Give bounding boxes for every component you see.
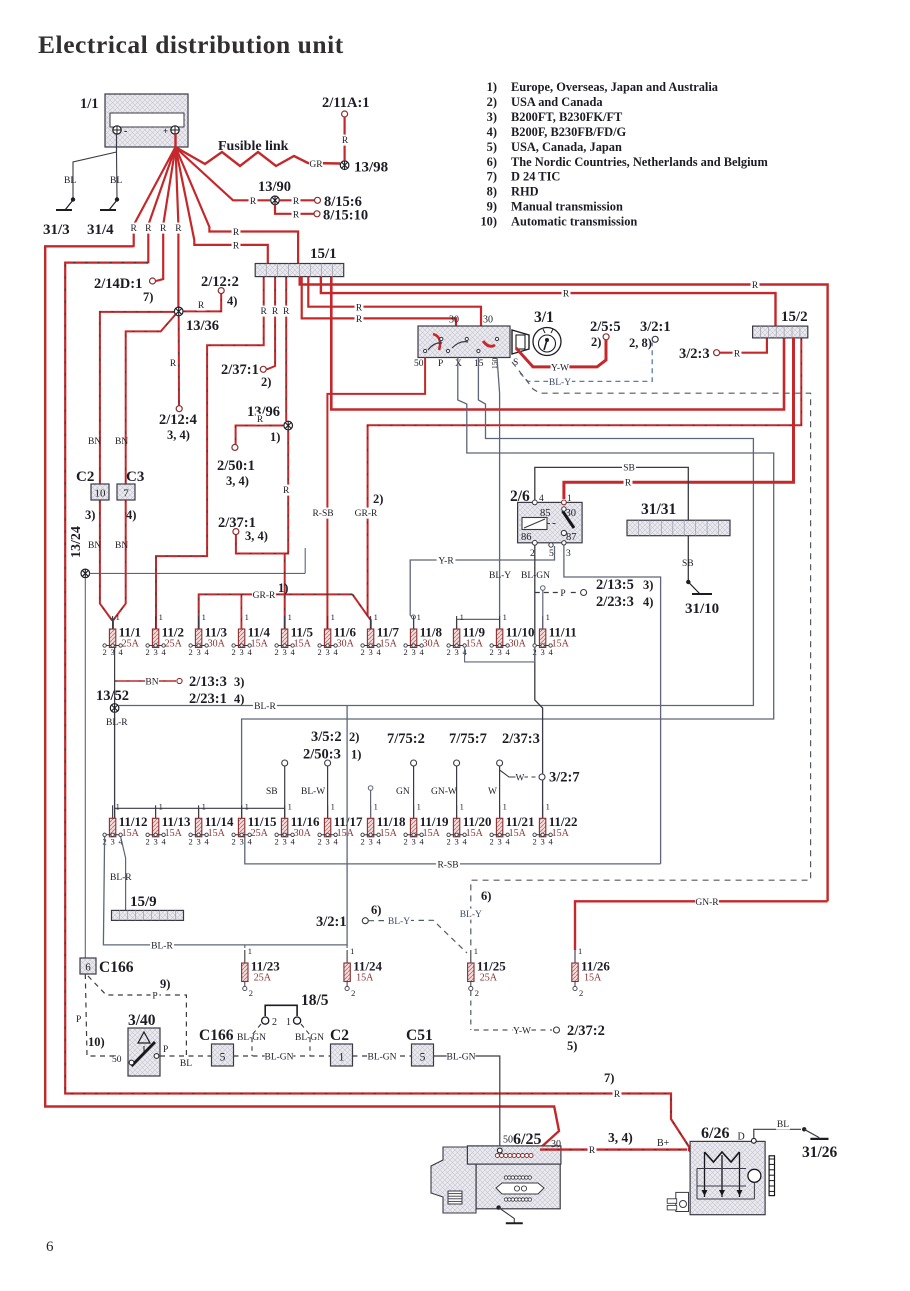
fuse 11/5 15A: [284, 616, 286, 629]
svg-text:4: 4: [505, 647, 510, 657]
svg-text:15/9: 15/9: [130, 894, 157, 910]
svg-text:11/14: 11/14: [205, 814, 234, 829]
svg-text:B200F, B230FB/FD/G: B200F, B230FB/FD/G: [511, 125, 627, 139]
svg-text:SB: SB: [623, 464, 635, 474]
wire BL-R 13/52 down to row 2 bus: [114, 712, 116, 818]
svg-text:3: 3: [368, 647, 372, 657]
svg-text:1: 1: [503, 612, 507, 622]
alternator rotor: [748, 1169, 761, 1182]
svg-text:4): 4): [643, 595, 653, 609]
svg-text:4: 4: [419, 836, 424, 846]
svg-text:2: 2: [360, 647, 364, 657]
svg-text:1: 1: [567, 494, 572, 504]
fuse 11/17 15A: [327, 805, 329, 818]
svg-text:Electrical distribution unit: Electrical distribution unit: [38, 30, 344, 59]
fuse 11/22 15A: [542, 805, 544, 818]
wire dashed fuse 11/25 to Y-W: [470, 991, 472, 1030]
wire BL-GN C166 to C2: [234, 1055, 331, 1057]
svg-text:3): 3): [643, 578, 653, 592]
svg-text:6: 6: [46, 1239, 54, 1255]
svg-text:2/13:3: 2/13:3: [189, 674, 227, 690]
svg-text:BL-R: BL-R: [151, 941, 173, 951]
svg-text:3: 3: [540, 647, 544, 657]
svg-text:9): 9): [160, 977, 170, 991]
alternator pulley: [769, 1156, 774, 1196]
svg-text:9): 9): [487, 200, 497, 214]
svg-text:D: D: [738, 1132, 745, 1143]
svg-text:86: 86: [521, 532, 532, 543]
svg-text:B+: B+: [657, 1138, 670, 1149]
svg-text:7): 7): [143, 290, 153, 304]
svg-text:3, 4): 3, 4): [167, 428, 190, 442]
svg-text:2: 2: [231, 647, 235, 657]
svg-text:11/2: 11/2: [162, 625, 184, 640]
svg-text:2/37:1: 2/37:1: [221, 362, 259, 378]
svg-text:BL-GN: BL-GN: [295, 1033, 324, 1043]
connector C166 pin 5: [212, 1044, 234, 1066]
svg-text:2/50:3: 2/50:3: [303, 747, 341, 763]
fuse 11/12 15A: [112, 805, 114, 818]
svg-text:R: R: [131, 224, 138, 234]
svg-text:R: R: [293, 197, 300, 207]
svg-text:15A: 15A: [380, 639, 398, 650]
svg-text:11/25: 11/25: [477, 959, 506, 974]
svg-text:1: 1: [374, 801, 378, 811]
svg-text:1): 1): [270, 430, 280, 444]
svg-text:R: R: [261, 307, 268, 317]
wire R 13/90 to 8/15:6: [280, 199, 315, 201]
wire BN C2 to fuse 11/1: [100, 500, 112, 621]
svg-text:C3: C3: [126, 469, 144, 485]
svg-text:25A: 25A: [122, 639, 140, 650]
fuse 11/16 30A: [284, 805, 286, 818]
svg-text:4: 4: [247, 836, 252, 846]
wire R 15/2 to relay 30: [564, 338, 794, 499]
svg-text:4: 4: [247, 647, 252, 657]
svg-text:R: R: [563, 290, 570, 300]
wire R branch to 2/37:1 variant 3 4: [236, 535, 288, 554]
svg-text:15A: 15A: [251, 639, 269, 650]
fuse 11/11 15A: [542, 616, 544, 629]
svg-text:2): 2): [373, 492, 383, 506]
svg-text:C51: C51: [406, 1027, 433, 1044]
svg-text:2): 2): [349, 730, 359, 744]
svg-text:13/24: 13/24: [69, 526, 84, 558]
svg-text:D 24 TIC: D 24 TIC: [511, 170, 560, 184]
svg-text:R: R: [257, 415, 264, 425]
fuse 11/10 30A: [499, 616, 501, 629]
wire GN-R outer loop to fuse 11/26: [575, 901, 828, 950]
fuse 11/6 30A: [327, 616, 329, 629]
splice 13/36: [174, 307, 183, 316]
svg-text:SB: SB: [266, 787, 278, 797]
svg-text:4: 4: [161, 836, 166, 846]
svg-text:87: 87: [566, 532, 577, 543]
splice 13/52: [114, 686, 116, 704]
svg-text:1: 1: [417, 801, 421, 811]
svg-text:BL-GN: BL-GN: [237, 1033, 266, 1043]
fuse 11/14 15A: [198, 805, 200, 818]
splice 13/90: [271, 196, 280, 205]
svg-text:P: P: [76, 1015, 81, 1025]
svg-text:BN: BN: [145, 678, 158, 688]
svg-text:4): 4): [126, 508, 136, 522]
svg-text:8/15:10: 8/15:10: [323, 208, 368, 224]
relay coil: [522, 518, 547, 530]
wire BL 3/40 to C166 pin 5: [160, 1055, 211, 1057]
svg-text:25A: 25A: [251, 828, 269, 839]
wire BL-GN C51 to starter 50: [434, 1056, 500, 1149]
svg-text:3: 3: [454, 836, 458, 846]
svg-text:R: R: [283, 486, 290, 496]
svg-text:2/50:1: 2/50:1: [217, 458, 255, 474]
svg-text:5): 5): [487, 140, 497, 154]
svg-text:1: 1: [331, 801, 335, 811]
svg-text:BL: BL: [110, 176, 122, 186]
fuse row 2 bus wire: [115, 807, 285, 809]
fuse 11/24 15A: [346, 945, 348, 948]
wire fuse 11/4 feed from GR-R bus: [240, 594, 242, 629]
svg-text:3/40: 3/40: [128, 1012, 156, 1029]
svg-text:Y-R: Y-R: [438, 557, 454, 567]
wire BL-Y dashed ignition to 3/2:1: [520, 343, 652, 382]
svg-text:R: R: [145, 224, 152, 234]
svg-text:4: 4: [376, 647, 381, 657]
svg-text:R: R: [589, 1146, 596, 1156]
wire R fan column 1: [134, 147, 176, 247]
svg-text:C2: C2: [76, 469, 94, 485]
terminal 2/14D:1: [150, 278, 156, 284]
svg-text:3: 3: [368, 836, 372, 846]
terminal 3/2:3: [714, 350, 720, 356]
svg-text:3/5:2: 3/5:2: [311, 729, 342, 745]
svg-text:1: 1: [116, 801, 120, 811]
svg-text:31/10: 31/10: [685, 601, 719, 617]
wire R starter 30 to alternator B+: [540, 1148, 687, 1150]
svg-text:-: -: [124, 126, 127, 137]
svg-text:W: W: [516, 774, 525, 784]
connector strip 15/2: [753, 326, 808, 338]
svg-text:11/19: 11/19: [420, 814, 449, 829]
svg-text:2: 2: [360, 836, 364, 846]
svg-text:BL: BL: [777, 1120, 789, 1130]
wire P relay to 2/13:5: [535, 592, 578, 594]
svg-text:2/13:5: 2/13:5: [596, 577, 634, 593]
svg-text:3/2:1: 3/2:1: [640, 319, 671, 335]
svg-text:R: R: [233, 228, 240, 238]
svg-text:1: 1: [159, 801, 163, 811]
starter ground wire: [496, 1205, 500, 1209]
svg-text:5): 5): [567, 1039, 577, 1053]
svg-text:1: 1: [460, 801, 464, 811]
svg-text:7): 7): [604, 1071, 614, 1085]
svg-text:3): 3): [234, 675, 244, 689]
starter terminal 50: [497, 1148, 502, 1153]
wire GR to splice 13/98: [309, 159, 323, 170]
svg-text:11/13: 11/13: [162, 814, 191, 829]
fuse 11/13 15A: [155, 805, 157, 818]
fusible link wire: [177, 148, 340, 166]
svg-text:R: R: [250, 197, 257, 207]
svg-text:15A: 15A: [466, 639, 484, 650]
svg-text:3: 3: [540, 836, 544, 846]
starter armature: [496, 1183, 544, 1194]
svg-text:1: 1: [202, 612, 206, 622]
svg-text:3: 3: [110, 836, 114, 846]
fuse 11/23 25A: [244, 945, 246, 948]
svg-text:C2: C2: [330, 1027, 349, 1044]
svg-text:Europe, Overseas, Japan and Au: Europe, Overseas, Japan and Australia: [511, 80, 718, 94]
wire relay 3 to Y-R junction and R-SB line: [564, 545, 661, 864]
svg-text:3: 3: [454, 647, 458, 657]
svg-text:4: 4: [333, 647, 338, 657]
svg-text:1: 1: [350, 946, 354, 956]
svg-text:Y-W: Y-W: [551, 364, 569, 374]
svg-text:4: 4: [290, 836, 295, 846]
wire R fan column 4 to splice 13/36: [176, 147, 179, 307]
ground 31/26: [804, 1129, 819, 1137]
svg-text:3/2:7: 3/2:7: [549, 770, 580, 786]
relay 2/6 body: [518, 502, 583, 542]
svg-text:1: 1: [546, 612, 550, 622]
svg-text:5: 5: [220, 1052, 226, 1064]
wire BL-GN 18/5 pin 1 down: [301, 1024, 310, 1056]
starter motor 6/25 gear stripes: [448, 1191, 462, 1204]
terminal 3/2:1: [652, 336, 658, 342]
svg-text:7: 7: [123, 488, 129, 500]
svg-text:USA, Canada, Japan: USA, Canada, Japan: [511, 140, 622, 154]
svg-text:R: R: [272, 307, 279, 317]
svg-text:11/7: 11/7: [377, 625, 400, 640]
svg-text:1: 1: [288, 612, 292, 622]
svg-text:BN: BN: [115, 541, 128, 551]
svg-text:3: 3: [411, 647, 415, 657]
svg-text:1: 1: [374, 612, 378, 622]
svg-text:1: 1: [159, 612, 163, 622]
svg-text:BL-Y: BL-Y: [460, 910, 482, 920]
svg-text:2/12:2: 2/12:2: [201, 274, 239, 290]
svg-text:BL-GN: BL-GN: [521, 571, 550, 581]
svg-text:15A: 15A: [423, 828, 441, 839]
alternator diodes: [702, 1190, 708, 1196]
svg-text:2: 2: [274, 836, 278, 846]
wire ignition 15 to 13/52 line: [119, 358, 753, 706]
svg-text:30: 30: [449, 315, 459, 326]
svg-text:25A: 25A: [480, 973, 498, 984]
svg-text:R: R: [160, 224, 167, 234]
svg-text:RHD: RHD: [511, 185, 539, 199]
svg-text:11/10: 11/10: [506, 625, 535, 640]
svg-text:4): 4): [487, 125, 497, 139]
svg-text:11/3: 11/3: [205, 625, 228, 640]
starter motor 6/25 drive housing: [431, 1147, 476, 1213]
svg-text:6): 6): [371, 903, 381, 917]
svg-text:BL-W: BL-W: [301, 787, 325, 797]
svg-text:BN: BN: [88, 541, 101, 551]
svg-text:2: 2: [489, 836, 493, 846]
wire R-SB line to fuse 11/15: [245, 837, 661, 864]
svg-text:30A: 30A: [208, 639, 226, 650]
svg-text:2: 2: [403, 647, 407, 657]
svg-text:31/26: 31/26: [802, 1144, 838, 1161]
svg-text:1/1: 1/1: [80, 96, 99, 112]
svg-text:2): 2): [487, 95, 497, 109]
svg-text:Manual transmission: Manual transmission: [511, 200, 623, 214]
wire R-SB ignition 50 to fuse 11/6: [327, 358, 425, 630]
wire BL-GN C2 to C51: [353, 1055, 412, 1057]
connector strip 31/31: [627, 520, 730, 536]
svg-text:4: 4: [333, 836, 338, 846]
svg-text:BL-Y: BL-Y: [388, 917, 410, 927]
svg-text:R-SB: R-SB: [312, 509, 333, 519]
fuse 11/26 15A: [574, 950, 576, 963]
svg-text:50: 50: [414, 359, 424, 369]
svg-text:R: R: [198, 301, 205, 311]
svg-text:6): 6): [487, 155, 497, 169]
wire BL battery negative to ground 31/4: [116, 152, 119, 199]
inhibitor switch 3/40: [128, 1028, 160, 1076]
svg-text:R: R: [734, 349, 741, 359]
ignition switch 3/1 body: [418, 326, 510, 358]
svg-text:15A: 15A: [584, 973, 602, 984]
svg-text:BL-GN: BL-GN: [264, 1053, 293, 1063]
svg-text:30A: 30A: [294, 828, 312, 839]
wire R 15/1 to 2/37:1: [267, 277, 275, 370]
fuse 11/3 30A: [198, 616, 200, 629]
svg-text:2: 2: [231, 836, 235, 846]
svg-text:1: 1: [245, 612, 249, 622]
fuse 11/7 15A: [370, 616, 372, 629]
svg-text:P: P: [152, 992, 157, 1002]
svg-text:3: 3: [497, 836, 501, 846]
svg-text:BL: BL: [64, 176, 76, 186]
fuse 11/9 15A: [456, 616, 458, 629]
ignition key symbol: [512, 330, 529, 354]
svg-text:2/12:4: 2/12:4: [159, 412, 197, 428]
alternator 6/26 body: [690, 1141, 765, 1214]
svg-text:1: 1: [546, 801, 550, 811]
wire R 15/1 pin to long bus y409: [331, 277, 784, 410]
svg-text:11/20: 11/20: [463, 814, 492, 829]
terminal 2/37:1 variant 2: [260, 366, 266, 372]
svg-text:2: 2: [446, 647, 450, 657]
svg-text:R: R: [293, 211, 300, 221]
wire BL-GN 18/5 pin 2 down: [252, 1024, 261, 1056]
splice 13/98: [340, 161, 349, 170]
wire BL-R fuse 11/12 to 15/9: [121, 837, 126, 911]
svg-text:The Nordic Countries, Netherla: The Nordic Countries, Netherlands and Be…: [511, 155, 768, 169]
connector C2 pin 1: [331, 1044, 353, 1066]
svg-text:2: 2: [249, 988, 253, 998]
svg-text:2: 2: [579, 988, 583, 998]
svg-text:C166: C166: [99, 959, 134, 976]
svg-text:Y-W: Y-W: [513, 1027, 531, 1037]
svg-text:13/52: 13/52: [96, 688, 129, 704]
wire BN fuse 11/1 to 2/13:3: [114, 648, 116, 686]
starter motor 6/25 body: [476, 1164, 560, 1209]
svg-text:3: 3: [196, 836, 200, 846]
svg-text:30A: 30A: [509, 639, 527, 650]
wire R 15/1 to ignition 30 second: [308, 277, 481, 327]
wire BL-GN relay 2 to fuse 11/22: [535, 545, 543, 818]
ignition switch internal contacts: [433, 334, 440, 350]
svg-text:11/17: 11/17: [334, 814, 363, 829]
wire R 15/1 to fuse 11/2: [156, 277, 264, 629]
connector strip 15/1: [255, 264, 344, 277]
wire R 13/36 down to 2/12:4: [178, 316, 180, 406]
svg-text:4: 4: [548, 836, 553, 846]
svg-text:4: 4: [290, 647, 295, 657]
splice 13/24: [81, 569, 90, 578]
svg-text:15A: 15A: [337, 828, 355, 839]
svg-text:30: 30: [483, 315, 493, 326]
svg-text:15A: 15A: [509, 828, 527, 839]
svg-text:3, 4): 3, 4): [608, 1130, 633, 1145]
wire R 2/11A:1 to 13/98: [344, 117, 346, 161]
terminal 2/50:1: [232, 444, 238, 450]
svg-text:+: +: [163, 126, 168, 136]
wire R 13/36 to connector C2: [100, 312, 174, 484]
svg-text:2): 2): [261, 375, 271, 389]
svg-text:1: 1: [248, 946, 252, 956]
svg-text:3: 3: [566, 549, 571, 559]
svg-text:R: R: [175, 224, 182, 234]
svg-text:P: P: [560, 589, 565, 599]
svg-text:GR-R: GR-R: [253, 591, 276, 601]
wire R fan to 15/1 left pin: [176, 147, 268, 264]
svg-text:2/37:3: 2/37:3: [502, 731, 540, 747]
wire R fan column 3 to 2/14D:1: [156, 147, 176, 281]
svg-text:3: 3: [325, 647, 329, 657]
svg-text:3: 3: [497, 647, 501, 657]
svg-text:C166: C166: [199, 1027, 234, 1044]
svg-text:11/11: 11/11: [549, 625, 577, 640]
svg-text:31/3: 31/3: [43, 222, 70, 238]
svg-text:3/2:1: 3/2:1: [316, 914, 347, 930]
wire 13/24 right: [90, 572, 306, 574]
svg-text:3: 3: [153, 836, 157, 846]
svg-text:25A: 25A: [165, 639, 183, 650]
svg-text:3): 3): [85, 508, 95, 522]
fuse 11/19 15A: [413, 805, 415, 818]
svg-text:BN: BN: [88, 437, 101, 447]
terminal 2/37:1 variant 3 4: [233, 529, 239, 535]
svg-text:4: 4: [505, 836, 510, 846]
svg-text:BL-Y: BL-Y: [549, 378, 571, 388]
svg-text:2: 2: [317, 836, 321, 846]
svg-text:BL-R: BL-R: [110, 873, 132, 883]
svg-text:2: 2: [188, 647, 192, 657]
svg-text:1: 1: [339, 1052, 345, 1064]
svg-text:3: 3: [411, 836, 415, 846]
wire P dashed C166 to bypass 9: [88, 976, 186, 1056]
svg-text:R: R: [342, 136, 349, 146]
svg-text:15A: 15A: [122, 828, 140, 839]
wire BL-Y ignition to fuses 11/9 11/10: [497, 358, 500, 620]
svg-text:R: R: [614, 1090, 621, 1100]
svg-text:15A: 15A: [552, 828, 570, 839]
svg-text:R: R: [283, 307, 290, 317]
terminal 2/12:4: [176, 406, 182, 412]
svg-text:6/26: 6/26: [701, 1125, 729, 1142]
svg-text:1): 1): [487, 80, 497, 94]
svg-text:3/2:3: 3/2:3: [679, 346, 710, 362]
svg-text:3): 3): [487, 110, 497, 124]
svg-text:4: 4: [419, 647, 424, 657]
svg-text:2: 2: [489, 647, 493, 657]
svg-text:BL-Y: BL-Y: [489, 571, 511, 581]
wire P dashed C166 to 3/40 inhibitor: [85, 974, 114, 1056]
